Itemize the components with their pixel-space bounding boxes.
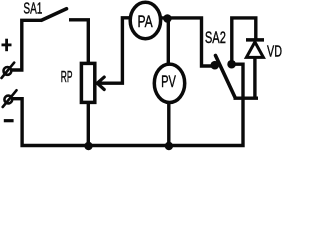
wire: PA right to SA2 left contact (160, 18, 212, 66)
wire: VD top loop (232, 18, 256, 64)
minus sign (4, 119, 14, 122)
diode VD cathode bar (246, 38, 264, 42)
junction dot at PA right node (163, 14, 172, 23)
wire: - terminal, bottom bus, right riser, SA2 right contact elbow (11, 64, 243, 145)
svg-text:SA2: SA2 (205, 29, 226, 47)
diode VD triangle (246, 42, 263, 57)
svg-text:SA1: SA1 (23, 1, 42, 18)
svg-text:PA: PA (138, 12, 154, 31)
svg-text:VD: VD (267, 43, 282, 60)
switch SA1 blade (42, 9, 67, 21)
svg-text:PV: PV (161, 72, 176, 91)
junction dot RP-bus (84, 142, 92, 150)
wire: VD bottom lead (253, 57, 256, 98)
ammeter PA circle (130, 2, 160, 38)
switch SA2 blade (216, 56, 236, 98)
wire: RP bottom to bus (87, 102, 90, 145)
terminal + (circle with slash) (4, 67, 12, 75)
SA2 right contact dot (227, 60, 236, 69)
terminal - (circle with slash) (4, 96, 12, 104)
potentiometer RP body (81, 63, 94, 102)
junction dot PV-bus (165, 142, 173, 150)
potentiometer RP wiper arrowhead (97, 77, 104, 89)
wire: bottom node horizontal (234, 96, 259, 99)
wire: + terminal to SA1 left (10, 20, 42, 70)
svg-text:RP: RP (61, 69, 73, 86)
wire: PV bottom to bus (167, 104, 170, 146)
wire: SA1 right contact down to RP top (69, 20, 88, 64)
SA2 left contact dot (211, 61, 220, 70)
voltmeter PV circle (154, 64, 184, 102)
plus sign (2, 39, 12, 52)
wire: node to PV top (167, 20, 170, 64)
wire: RP wiper to PA left (98, 18, 131, 83)
